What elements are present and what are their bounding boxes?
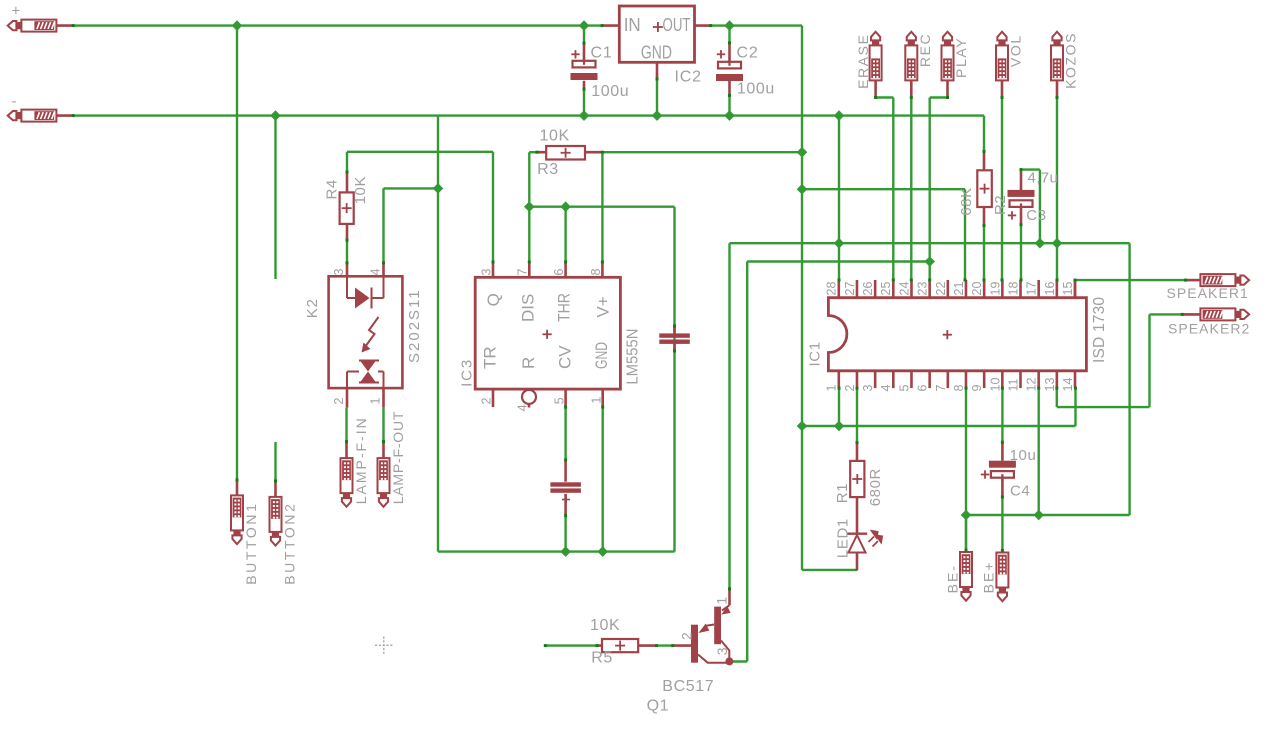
IC2 origin cross — [653, 26, 663, 28]
IC3 pin 3 stub — [492, 262, 495, 277]
IC1 pin 25 stub — [892, 280, 895, 298]
svg-text:4: 4 — [368, 269, 382, 276]
pin stub - plug — [56, 114, 73, 117]
K2 internal LED — [347, 276, 384, 308]
wire IC2 GND down — [656, 79, 658, 116]
wire -rail drop to R2 — [983, 116, 985, 152]
wire R5 to Q1 base — [657, 644, 673, 646]
svg-text:23: 23 — [916, 282, 930, 296]
svg-text:27: 27 — [843, 282, 857, 296]
connector BUTTON2 — [274, 481, 277, 497]
svg-text:BUTTON2: BUTTON2 — [281, 502, 297, 585]
svg-text:LED1: LED1 — [834, 518, 851, 558]
IC1 pin 12 stub — [1037, 371, 1040, 388]
junction VCC vertical / pin1 rail — [797, 421, 808, 432]
svg-text:VOL: VOL — [1007, 34, 1023, 67]
IC1 pin 27 stub — [856, 280, 859, 298]
IC1 pin 4 stub — [892, 371, 895, 388]
wire cap to GND rail — [564, 516, 566, 552]
wire -rail — [73, 114, 984, 116]
junction C1 / - rail — [579, 110, 590, 121]
IC timer IC3 body — [475, 277, 620, 389]
junction IC2 GND / - rail — [652, 110, 663, 121]
svg-text:18: 18 — [1006, 282, 1020, 296]
svg-text:SPEAKER2: SPEAKER2 — [1168, 321, 1250, 337]
wire ERASE corner — [876, 96, 894, 98]
junction C3 hook / y243 rail — [1035, 238, 1046, 249]
wire to BE- — [965, 515, 967, 550]
junction KOZOS net / y243 rail — [1052, 238, 1063, 249]
wire K2 pin1 to LAMP-F-OUT — [382, 408, 384, 442]
connector - (supply minus jack) — [21, 110, 56, 122]
svg-text:16: 16 — [1043, 282, 1057, 296]
wire IC1 pin12 to BE rail — [1037, 388, 1039, 515]
wire KOZOS to IC1 pin16 — [1056, 98, 1058, 281]
junction BE- / rail — [961, 510, 972, 521]
svg-text:1: 1 — [589, 397, 603, 404]
svg-text:11: 11 — [1006, 378, 1020, 391]
IC1 pin 19 stub — [1001, 280, 1004, 298]
svg-text:ISD 1730: ISD 1730 — [1091, 297, 1108, 363]
IC1 pin 11 stub — [1019, 371, 1022, 388]
wire vertical x=674 through cap — [673, 207, 675, 552]
wire IC1 pin1/pin14 rail — [802, 425, 1076, 427]
C3 polarity + — [1008, 214, 1016, 216]
svg-text:LAMP-F-IN: LAMP-F-IN — [353, 416, 369, 504]
wire C3 hook down — [1039, 170, 1041, 244]
capacitor C3 plates — [1020, 170, 1023, 191]
connector REC — [905, 45, 917, 80]
wire R5 left — [545, 644, 597, 646]
svg-text:2: 2 — [843, 385, 857, 392]
wire Q1 emitter vertical — [746, 262, 748, 662]
wire BUTTON1 vertical — [236, 26, 238, 480]
svg-text:SPEAKER1: SPEAKER1 — [1167, 285, 1249, 301]
wire IC3 pin1 to GND rail — [602, 407, 604, 551]
connector LAMP-F-IN — [345, 442, 348, 458]
capacitor at IC3 pin5 — [564, 460, 567, 482]
wire IC1 pin15 to SPEAKER1 — [1075, 279, 1186, 281]
svg-text:BUTTON1: BUTTON1 — [243, 502, 259, 585]
svg-text:8: 8 — [952, 385, 966, 392]
wire SPEAKER2 vertical — [1148, 314, 1150, 407]
svg-text:100u: 100u — [737, 81, 775, 98]
svg-text:26: 26 — [861, 282, 875, 296]
wire BUTTON2 upper segment — [274, 116, 276, 279]
junction IC3 pin6 — [560, 201, 571, 212]
svg-text:IC3: IC3 — [458, 358, 475, 387]
svg-text:9: 9 — [970, 385, 984, 392]
svg-text:28: 28 — [825, 282, 839, 296]
IC1 pin 14 stub — [1074, 371, 1077, 388]
IC1 pin 7 stub — [947, 371, 950, 388]
svg-text:13: 13 — [1043, 378, 1057, 392]
svg-text:LM555N: LM555N — [625, 329, 642, 385]
IC1 pin 3 stub — [874, 371, 877, 388]
IC1 pin 21 stub — [965, 280, 968, 298]
wire IC3 pin3 vertical — [492, 152, 494, 262]
wire IC3 pin7/pin6 rail — [529, 205, 674, 207]
wire C1 bottom — [583, 89, 585, 116]
svg-text:24: 24 — [897, 282, 911, 296]
C2 polarity + — [717, 53, 725, 55]
IC1 pin 10 stub — [1001, 371, 1004, 388]
wire +rail to IC2 IN — [73, 24, 602, 26]
svg-text:IC2: IC2 — [675, 69, 702, 86]
IC1 pin 5 stub — [910, 371, 913, 388]
svg-text:DIS: DIS — [519, 294, 538, 322]
svg-text:LAMP-F-OUT: LAMP-F-OUT — [390, 411, 406, 505]
IC1 pin 24 stub — [910, 280, 913, 298]
connector ERASE — [870, 45, 882, 80]
svg-text:7: 7 — [516, 269, 530, 276]
svg-text:19: 19 — [988, 282, 1002, 296]
wire rail y=243 — [730, 242, 1130, 244]
wire IC1 pin2 to R1 — [856, 388, 858, 443]
IC1 pin 1 stub — [837, 371, 840, 388]
wire K2 pin4 up — [382, 188, 384, 263]
resistor R2 body — [983, 152, 986, 171]
transistor Q1 BC517 — [673, 644, 691, 647]
net end ticks — [72, 24, 75, 27]
junction IC1 pin1 / rail — [834, 421, 845, 432]
connector KOZOS — [1051, 45, 1063, 80]
resistor R1 body — [856, 443, 859, 461]
svg-text:R3: R3 — [537, 161, 559, 178]
IC1 pin 9 stub — [983, 371, 986, 388]
svg-text:IN: IN — [624, 15, 641, 35]
wire IC3 pin5 to cap — [564, 407, 566, 460]
svg-text:K2: K2 — [304, 298, 321, 318]
connector PLAY — [942, 45, 954, 80]
connector LAMP-F-OUT — [382, 442, 385, 458]
svg-text:2: 2 — [479, 398, 493, 405]
IC1 pin 22 stub — [947, 280, 950, 298]
wire rail y=261 to IC1 pin23 — [747, 260, 930, 262]
IC regulator IC2 body — [619, 6, 694, 62]
wire SPEAKER2 horizontal — [1057, 406, 1150, 408]
connector SPEAKER1 — [1186, 279, 1201, 282]
svg-text:C4: C4 — [1010, 483, 1030, 500]
wire R4 to K2 pin3 — [346, 240, 348, 263]
resistor R4 body — [346, 172, 349, 192]
IC1 pin 17 stub — [1037, 280, 1040, 298]
wire IC1 pin28 vertical — [838, 116, 840, 280]
wire IC1 pin13 down — [1056, 388, 1058, 407]
junction Q1 emitter rail / pin23 net — [924, 256, 935, 267]
svg-text:OUT: OUT — [663, 15, 691, 35]
svg-text:BE-: BE- — [944, 564, 960, 593]
IC2 pin IN stub — [602, 24, 619, 27]
junction IC3 pin1 / GND rail — [597, 546, 608, 557]
wire PLAY to IC1 pin23 — [929, 98, 931, 281]
svg-text:17: 17 — [1025, 282, 1039, 296]
sheet origin marker — [375, 644, 393, 646]
IC1 pin 18 stub — [1019, 280, 1022, 298]
svg-text:3: 3 — [332, 269, 346, 276]
wire C1 top — [583, 26, 585, 43]
svg-text:2: 2 — [678, 632, 694, 640]
svg-text:C1: C1 — [591, 45, 613, 62]
IC1 pin 13 stub — [1056, 371, 1059, 388]
wire Q1 emitter stub — [731, 660, 747, 662]
junction IC3 pin7 — [524, 201, 535, 212]
junction pin28 vertical / y243 rail — [834, 238, 845, 249]
wire to LED1 bottom — [802, 569, 857, 571]
svg-text:10K: 10K — [590, 617, 620, 634]
IC1 pin 8 stub — [965, 371, 968, 388]
IC1 pin 2 stub — [856, 371, 859, 388]
svg-text:12: 12 — [1025, 378, 1039, 392]
wire BUTTON2 lower segment — [274, 442, 276, 481]
svg-text:10K: 10K — [540, 128, 570, 145]
IC chip IC1 body — [828, 298, 1086, 371]
junction BUTTON1 / + rail — [232, 20, 243, 31]
svg-text:68K: 68K — [958, 187, 975, 216]
wire bottom GND rail — [438, 550, 675, 552]
junction C2 / - rail — [724, 110, 735, 121]
IC1 pin 15 stub — [1074, 280, 1077, 298]
svg-text:+: + — [12, 3, 21, 20]
IC3 pin 1 stub — [601, 389, 604, 407]
resistor R5 body — [597, 644, 602, 647]
svg-text:6: 6 — [552, 269, 566, 276]
svg-text:25: 25 — [879, 282, 893, 296]
svg-text:8: 8 — [589, 269, 603, 276]
svg-text:3: 3 — [714, 647, 730, 655]
connector + (supply plus jack) — [21, 20, 56, 32]
K2 pin 3 stub — [346, 263, 349, 276]
resistor R3 body — [537, 151, 546, 154]
svg-text:1: 1 — [368, 398, 382, 405]
svg-text:4: 4 — [879, 385, 893, 392]
K2 pin 4 stub — [382, 263, 385, 276]
svg-text:22: 22 — [934, 282, 948, 296]
junction IC1 pin12 / BE rail — [1033, 510, 1044, 521]
svg-text:TR: TR — [481, 346, 500, 369]
svg-text:CV: CV — [556, 345, 575, 369]
svg-text:R5: R5 — [591, 650, 613, 667]
wire IC3 pin8 vertical — [601, 152, 603, 262]
junction BUTTON2 / - rail — [270, 110, 281, 121]
IC3 pin 5 stub — [564, 389, 567, 407]
svg-text:100u: 100u — [591, 83, 629, 100]
IC3 pin 2 stub — [492, 389, 495, 407]
junction R3 / VCC vertical — [797, 147, 808, 158]
wire IC1 pin14 down — [1074, 388, 1076, 426]
svg-text:R: R — [519, 357, 538, 369]
svg-text:10u: 10u — [1010, 447, 1037, 464]
wire to SPEAKER2 plug — [1150, 313, 1183, 315]
Q1 emitter junction dot — [725, 657, 733, 665]
junction K2 pin4 rail / x438 vertical — [433, 183, 444, 194]
wire BE rail y=515 — [966, 514, 1130, 516]
pin stub + plug — [56, 24, 73, 27]
IC1 pin 15 stub to SPEAKER1 — [1074, 280, 1077, 298]
svg-text:V+: V+ — [593, 296, 612, 317]
LED LED1 — [856, 497, 859, 534]
capacitor C2 plates — [728, 43, 731, 62]
K2 pin 1 stub — [382, 388, 385, 408]
C4 polarity + — [981, 474, 989, 476]
svg-text:-: - — [12, 93, 17, 110]
capacitor C1 plates — [583, 43, 586, 61]
wire R4 top — [346, 152, 348, 172]
svg-text:10: 10 — [988, 378, 1002, 392]
wire C2 top — [728, 26, 730, 43]
wire K2 pin4 rail to x438 junction — [384, 187, 439, 189]
IC1 pin 20 stub — [983, 280, 986, 298]
K2 internal triac — [347, 361, 384, 389]
svg-text:R2: R2 — [992, 195, 1009, 215]
svg-text:THR: THR — [555, 293, 574, 322]
wire R3 right to VCC junction — [602, 151, 802, 153]
wire IC1 pin8 down — [965, 388, 967, 515]
connector BUTTON1 — [236, 480, 239, 495]
IC3 pin 8 stub — [601, 262, 604, 277]
connector VOL — [996, 45, 1008, 80]
wire GND vertical x=438 — [437, 116, 439, 552]
svg-text:C2: C2 — [737, 45, 759, 62]
svg-text:3: 3 — [479, 269, 493, 276]
wire K2 pin2 to LAMP-F-IN — [345, 408, 347, 442]
IC1 origin cross — [943, 334, 952, 336]
wire R2 to IC1 pin20 — [983, 226, 985, 281]
svg-text:15: 15 — [1061, 282, 1075, 296]
optocoupler K2 body — [329, 276, 403, 388]
wire down to IC1 pin21 — [964, 189, 966, 280]
wire IC1 pin1 down — [838, 388, 840, 426]
svg-text:2: 2 — [332, 398, 346, 405]
svg-text:Q1: Q1 — [647, 698, 670, 715]
junction C2 / OUT rail — [724, 20, 735, 31]
svg-text:BE+: BE+ — [980, 561, 996, 594]
svg-text:10K: 10K — [352, 176, 369, 205]
wire PLAY corner — [930, 96, 948, 98]
wire ERASE to IC1 pin25 — [892, 98, 894, 281]
svg-text:BC517: BC517 — [662, 678, 714, 695]
IC1 pin 23 stub — [928, 280, 931, 298]
IC1 pin 28 stub — [837, 280, 840, 298]
svg-text:PLAY: PLAY — [953, 37, 969, 78]
IC2 pin OUT stub — [695, 24, 711, 27]
svg-text:21: 21 — [952, 282, 966, 296]
junction pin28 net / - rail — [834, 110, 845, 121]
svg-text:IC1: IC1 — [806, 341, 823, 366]
LED1 light arrows — [869, 531, 883, 547]
wire IC3 pin3 to R4 rail — [347, 151, 493, 153]
IC1 pin 16 stub — [1056, 280, 1059, 298]
svg-text:4: 4 — [515, 404, 529, 411]
svg-text:GND: GND — [641, 43, 672, 63]
wire VOL to IC1 pin19 — [1001, 98, 1003, 281]
wire C4 bottom to BE+ — [1001, 497, 1003, 551]
wire IC3 pin6 vertical — [564, 207, 566, 262]
connector BE- — [965, 515, 967, 550]
IC3 pin 6 stub — [564, 262, 567, 277]
capacitor at IC3 right — [673, 326, 676, 334]
svg-text:KOZOS: KOZOS — [1062, 32, 1078, 89]
wire C3 top hook — [1021, 168, 1040, 170]
svg-text:ERASE: ERASE — [855, 33, 871, 88]
IC3 pin 7 stub — [528, 262, 531, 277]
svg-text:680R: 680R — [867, 468, 884, 506]
capacitor C4 plates — [1001, 442, 1004, 461]
IC3 origin cross — [543, 333, 552, 335]
svg-text:1: 1 — [825, 385, 839, 392]
svg-text:6: 6 — [916, 385, 930, 392]
wire VCC rail to IC1 pin21 corner — [802, 188, 965, 190]
wire right vertical x=1129 — [1128, 243, 1130, 515]
svg-text:1: 1 — [713, 597, 729, 605]
junction C1 / + rail — [579, 20, 590, 31]
IC1 pin 6 stub — [928, 371, 931, 388]
svg-text:C3: C3 — [1026, 207, 1046, 224]
svg-text:14: 14 — [1061, 378, 1075, 392]
junction VCC rail / VCC vertical — [797, 184, 808, 195]
svg-text:GND: GND — [592, 342, 611, 369]
C1 polarity + — [571, 53, 579, 55]
IC1 pin 26 stub — [874, 280, 877, 298]
IC2 pin GND stub — [656, 62, 659, 79]
svg-text:20: 20 — [970, 282, 984, 296]
wire IC1 pin10 to C4 — [1001, 388, 1003, 442]
svg-text:R1: R1 — [834, 483, 851, 503]
K2 internal light arrow — [365, 317, 379, 347]
wire REC to IC1 pin24 — [910, 98, 912, 281]
K2 pin 2 stub — [346, 388, 349, 408]
svg-text:REC: REC — [917, 33, 933, 67]
svg-text:5: 5 — [897, 385, 911, 392]
svg-text:7: 7 — [934, 385, 948, 392]
svg-text:5: 5 — [552, 397, 566, 404]
wire Q1 collector vertical — [728, 243, 730, 589]
junction cap / GND rail — [560, 546, 571, 557]
wire C2 bottom — [728, 95, 730, 115]
svg-text:Q: Q — [484, 293, 503, 306]
wire C3 to IC1 pin18 — [1020, 225, 1022, 280]
svg-text:4,7u: 4,7u — [1028, 170, 1059, 187]
wire IC2 OUT to corner — [711, 24, 802, 26]
wire R3 left corner — [529, 151, 537, 153]
wire IC3 pin7 vertical — [528, 152, 530, 262]
IC3 pin 4 inverted circle — [522, 390, 536, 404]
svg-text:3: 3 — [861, 385, 875, 392]
wire vertical VCC x=802 — [801, 26, 803, 570]
svg-text:R4: R4 — [323, 179, 340, 199]
connector BE+ — [1001, 551, 1004, 553]
connector SPEAKER2 — [1182, 313, 1200, 316]
svg-text:S202S11: S202S11 — [406, 288, 423, 363]
